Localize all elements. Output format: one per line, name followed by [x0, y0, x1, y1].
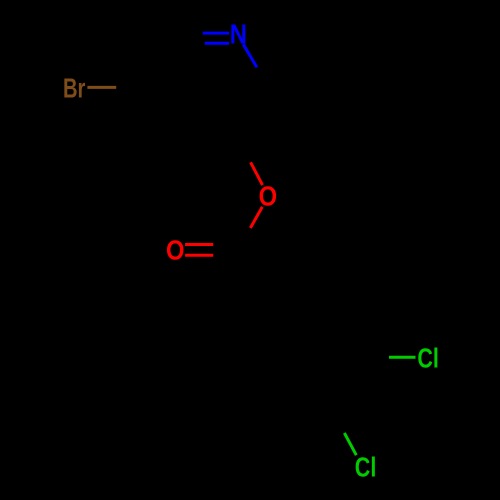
- svg-text:Br: Br: [63, 72, 86, 103]
- svg-text:O: O: [166, 234, 185, 265]
- svg-text:Cl: Cl: [417, 343, 439, 374]
- svg-text:N: N: [230, 19, 247, 50]
- svg-text:O: O: [259, 181, 278, 212]
- svg-text:Cl: Cl: [355, 452, 377, 483]
